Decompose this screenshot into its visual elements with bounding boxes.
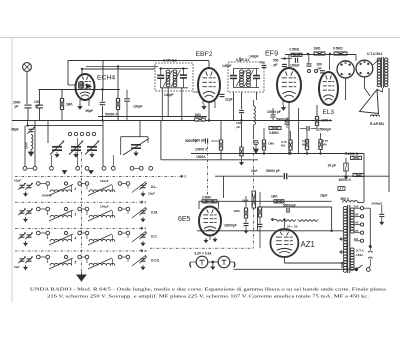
svg-text:pF: pF bbox=[237, 125, 241, 129]
svg-text:6E5: 6E5 bbox=[178, 216, 191, 223]
svg-text:29 + 50: 29 + 50 bbox=[287, 225, 298, 229]
svg-text:EBF2: EBF2 bbox=[196, 51, 213, 58]
svg-text:16 μF: 16 μF bbox=[328, 164, 337, 168]
svg-text:10000 pF: 10000 pF bbox=[267, 110, 281, 114]
svg-text:0.5MΩ: 0.5MΩ bbox=[290, 48, 300, 52]
svg-text:1MΛ: 1MΛ bbox=[251, 169, 258, 173]
svg-text:140pF: 140pF bbox=[164, 93, 174, 97]
svg-text:1500Λ: 1500Λ bbox=[196, 155, 206, 159]
svg-text:140pF: 140pF bbox=[249, 55, 259, 59]
svg-text:0.5MΩ: 0.5MΩ bbox=[269, 131, 279, 135]
svg-text:EL3: EL3 bbox=[323, 109, 335, 116]
svg-text:pF: pF bbox=[318, 66, 322, 70]
svg-text:50000 Λ: 50000 Λ bbox=[105, 112, 118, 116]
svg-text:10000pF: 10000pF bbox=[224, 224, 237, 228]
svg-text:100pF: 100pF bbox=[133, 105, 143, 109]
svg-text:ECH4: ECH4 bbox=[97, 75, 115, 82]
svg-text:5000 pF: 5000 pF bbox=[193, 139, 205, 143]
svg-text:U.MF.112: U.MF.112 bbox=[236, 58, 250, 62]
svg-text:1000 Ω: 1000 Ω bbox=[348, 152, 359, 156]
svg-text:EF9: EF9 bbox=[265, 49, 278, 58]
svg-text:700: 700 bbox=[260, 61, 265, 65]
svg-text:4000: 4000 bbox=[340, 261, 344, 268]
svg-text:5: 5 bbox=[75, 261, 77, 265]
svg-text:MΛ: MΛ bbox=[323, 143, 327, 147]
svg-text:1MΛ: 1MΛ bbox=[66, 103, 73, 107]
svg-text:1MΩ: 1MΩ bbox=[314, 47, 321, 51]
svg-text:R.AP.581: R.AP.581 bbox=[370, 122, 384, 126]
svg-text:1812: 1812 bbox=[356, 253, 363, 257]
svg-text:40000 Λ: 40000 Λ bbox=[339, 178, 352, 182]
svg-text:50000Λ: 50000Λ bbox=[42, 194, 52, 198]
svg-text:O.M.: O.M. bbox=[151, 211, 158, 215]
svg-text:16μF: 16μF bbox=[320, 194, 327, 198]
svg-text:F.: F. bbox=[145, 200, 148, 204]
svg-text:F.: F. bbox=[185, 175, 188, 179]
svg-text:F.: F. bbox=[145, 226, 148, 230]
svg-text:1MΛ: 1MΛ bbox=[271, 194, 278, 198]
svg-text:5pF: 5pF bbox=[14, 265, 20, 269]
svg-text:220: 220 bbox=[354, 204, 359, 208]
svg-text:125: 125 bbox=[354, 229, 359, 233]
svg-text:25pF: 25pF bbox=[14, 179, 21, 183]
svg-text:AZ1: AZ1 bbox=[301, 240, 315, 249]
svg-text:2: 2 bbox=[75, 187, 77, 191]
svg-text:4: 4 bbox=[75, 237, 77, 241]
svg-text:pF: pF bbox=[15, 105, 19, 109]
svg-text:2000pF: 2000pF bbox=[372, 202, 383, 206]
svg-text:160: 160 bbox=[354, 213, 359, 217]
svg-text:140pF: 140pF bbox=[222, 64, 232, 68]
svg-text:O.CC.: O.CC. bbox=[151, 259, 160, 263]
svg-text:pF: pF bbox=[274, 63, 278, 67]
svg-text:U.T.U.504: U.T.U.504 bbox=[367, 52, 382, 56]
svg-text:50000 pF: 50000 pF bbox=[266, 169, 280, 173]
svg-text:140: 140 bbox=[354, 221, 359, 225]
svg-text:10000 Λ: 10000 Λ bbox=[195, 148, 208, 152]
svg-text:15pF: 15pF bbox=[148, 192, 155, 196]
svg-text:6,3V = 0.3A: 6,3V = 0.3A bbox=[195, 252, 213, 256]
svg-text:3: 3 bbox=[75, 213, 77, 217]
svg-text:500: 500 bbox=[273, 59, 279, 63]
svg-text:1000 Λ: 1000 Λ bbox=[321, 119, 332, 123]
svg-text:100pF: 100pF bbox=[290, 63, 300, 67]
svg-text:21pF: 21pF bbox=[225, 98, 233, 102]
svg-text:50pF: 50pF bbox=[86, 109, 94, 113]
svg-text:U.MF.112: U.MF.112 bbox=[163, 59, 177, 63]
svg-text:46pF: 46pF bbox=[11, 128, 19, 132]
svg-text:O.L.: O.L. bbox=[151, 185, 158, 189]
svg-text:0.5MΛ: 0.5MΛ bbox=[202, 195, 212, 199]
svg-text:O.C.: O.C. bbox=[151, 235, 158, 239]
svg-text:1MΛ: 1MΛ bbox=[195, 113, 202, 117]
svg-text:110: 110 bbox=[354, 237, 359, 241]
svg-text:MΛ: MΛ bbox=[302, 143, 306, 147]
svg-text:25000pF: 25000pF bbox=[318, 128, 331, 132]
svg-text:MΛ: MΛ bbox=[281, 144, 285, 148]
svg-text:1MΛ: 1MΛ bbox=[268, 142, 275, 146]
svg-text:140pF: 140pF bbox=[100, 179, 109, 183]
svg-text:0.5MΩ: 0.5MΩ bbox=[333, 47, 343, 51]
svg-text:1MΛ: 1MΛ bbox=[234, 209, 241, 213]
svg-text:140pF: 140pF bbox=[100, 205, 109, 209]
